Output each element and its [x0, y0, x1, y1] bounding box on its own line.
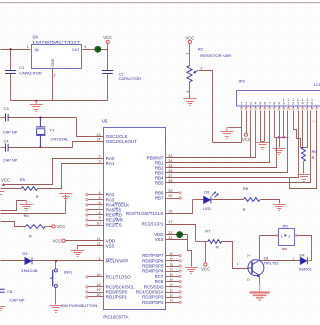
microcontroller U5 PIC16C877A [104, 128, 166, 310]
wire Q1 emitter down [259, 276, 261, 284]
svg-text:5: 5 [259, 101, 261, 105]
svg-text:1N4148: 1N4148 [21, 268, 38, 273]
diode D4 1N4001 [300, 258, 307, 265]
svg-text:2: 2 [54, 74, 56, 78]
JP3 pin 17 terminal [316, 106, 318, 108]
node VCC (green junction) [95, 46, 101, 52]
LED D2 [204, 192, 219, 204]
svg-text:1N4001: 1N4001 [298, 267, 312, 272]
wire RB4 pin 37 to JP3 pin 13 [166, 111, 299, 178]
wire R5 to RA1 pin 3 [38, 164, 104, 189]
wire to ground JP3 data pins [279, 138, 281, 148]
svg-text:1: 1 [287, 102, 289, 106]
wire JP3 pin 5 drop [260, 111, 262, 142]
junction C1 tap [10, 48, 12, 50]
power VCC terminal R6 [52, 225, 55, 228]
svg-text:VCC: VCC [103, 35, 112, 40]
wire JP3 pin 8 drop [274, 111, 276, 138]
VCC arrow terminal [2, 183, 5, 186]
no-connect terminals U5 left pins 16-20 [86, 276, 104, 298]
ground C5 (cut) [0, 307, 5, 313]
wire branch to JP3 pin 17 [290, 111, 317, 189]
svg-text:14: 14 [247, 254, 251, 258]
svg-text:R6: R6 [24, 213, 30, 218]
svg-text:0: 0 [283, 102, 285, 106]
ground JP3 pins 8-10 [273, 149, 286, 155]
wire RB1 pin 34 to JP3 pin 7 [166, 111, 270, 163]
svg-text:13: 13 [96, 133, 100, 137]
svg-text:IN: IN [35, 47, 39, 52]
no-connect terminals U5 left pins 4-10 [86, 194, 104, 227]
pot wiper arrow [194, 70, 199, 73]
wire to ground pins 31-32 [188, 235, 192, 267]
wire R6 to VCC terminal [46, 226, 52, 228]
svg-text:3: 3 [297, 102, 299, 106]
svg-text:VCC: VCC [56, 224, 65, 229]
svg-text:40: 40 [168, 194, 172, 198]
junction ground rail [35, 100, 37, 102]
wire VCC stub mid [205, 242, 207, 263]
wire to C1 top [10, 50, 12, 71]
svg-text:24: 24 [169, 284, 173, 288]
wire JP3 pin 3 drop [250, 111, 252, 158]
wire RB5 pin 38 to JP3 pin 16 [166, 111, 311, 183]
wire JP3 pin 6 drop [264, 111, 266, 142]
svg-text:U5: U5 [102, 119, 108, 124]
svg-text:Y1: Y1 [50, 128, 55, 133]
wire input to U4 IN [1, 49, 31, 51]
wire R8 to ground [261, 200, 280, 204]
wire VDD pin 32 [166, 234, 188, 236]
svg-text:R7: R7 [205, 228, 210, 233]
wire ground net drop [65, 195, 67, 214]
svg-text:CRYSTAL: CRYSTAL [51, 137, 70, 142]
power VCC terminal mid [204, 263, 207, 266]
svg-text:8: 8 [273, 101, 275, 105]
capacitor C3 [6, 114, 9, 122]
wire pot to JP3 pin 1 [213, 142, 242, 144]
svg-text:3: 3 [84, 45, 86, 49]
svg-text:JP2: JP2 [282, 225, 288, 229]
svg-text:LCD: LCD [314, 82, 320, 87]
svg-text:17: 17 [168, 220, 172, 224]
wire left to D3 anode [1, 260, 25, 262]
resistor R5 [21, 187, 37, 191]
crystal Y1 [36, 117, 45, 147]
ground SW1 [49, 306, 62, 313]
svg-text:RE2/CS: RE2/CS [106, 223, 122, 228]
wire into C4 [1, 147, 6, 149]
wire JP3 pins 8-11 join [275, 137, 289, 139]
svg-text:4: 4 [255, 101, 257, 105]
svg-text:D3: D3 [22, 251, 28, 256]
svg-text:CAPACITOR: CAPACITOR [19, 70, 42, 75]
wire into C3 [1, 117, 6, 119]
wire VSS pin 12 to ground [78, 246, 104, 250]
wire JP3 pin 15 drop [307, 111, 309, 148]
svg-text:R2: R2 [198, 47, 204, 52]
svg-text:CAPACITOR: CAPACITOR [119, 76, 142, 81]
wire to SW1 top [55, 261, 57, 269]
transistor Q1 TIPL751 [248, 260, 264, 278]
wire ground rail [11, 100, 108, 102]
svg-text:D4: D4 [300, 252, 306, 257]
U5 right pin name and number labels [126, 154, 173, 305]
svg-text:CAP NP: CAP NP [10, 298, 25, 303]
wire JP3 pin 2 to VCC [246, 111, 248, 134]
svg-text:2: 2 [245, 101, 247, 105]
potentiometer R2 RESISTOR VAR [187, 66, 192, 82]
svg-text:1: 1 [281, 234, 283, 238]
power VCC terminal [106, 40, 109, 43]
svg-text:RB5: RB5 [155, 181, 164, 186]
capacitor C5 [0, 289, 5, 292]
wire C4 to OSC2 net [9, 147, 73, 149]
power VCC terminal pot [188, 40, 191, 43]
top border frame line [0, 2, 320, 3]
svg-text:15: 15 [247, 278, 251, 282]
svg-text:VCC: VCC [1, 177, 10, 182]
wire VCC to VDD pin 11 [66, 240, 104, 242]
wire collector node to D4 anode [260, 260, 301, 262]
svg-text:RC2/CCP1: RC2/CCP1 [142, 222, 164, 227]
svg-text:SW1: SW1 [64, 270, 73, 275]
power VCC terminal JP3 [245, 133, 248, 136]
ground U5 right [185, 268, 198, 274]
svg-text:o+: o+ [312, 120, 316, 124]
wire JP3 pin 14 drop [302, 111, 304, 148]
wire D2 cathode to R8 [212, 199, 244, 201]
svg-text:GND: GND [51, 58, 55, 66]
wire C2 bottom to ground rail [107, 74, 109, 101]
voltage regulator U4 LM7805 [32, 35, 83, 69]
wire ground branch JP3 pin 1 [228, 127, 242, 129]
ground JP3 pins 5-6 [256, 143, 269, 150]
svg-text:1: 1 [27, 45, 29, 49]
svg-text:VSS: VSS [106, 243, 115, 248]
svg-text:5: 5 [306, 102, 308, 106]
wire left to R6 [1, 222, 26, 227]
wire JP3 pins 5-6 join [261, 141, 265, 143]
wire C1 bottom to ground rail [10, 74, 12, 101]
ground R2 [183, 99, 196, 106]
svg-text:VCC: VCC [185, 35, 194, 40]
wire Q1 collector up [259, 236, 261, 260]
wire U4 GND pin down [52, 69, 54, 101]
svg-text:R8: R8 [243, 186, 249, 191]
svg-text:R: R [216, 245, 219, 250]
svg-text:LM7805ACT/D2T: LM7805ACT/D2T [33, 40, 83, 44]
svg-text:1: 1 [240, 101, 242, 105]
svg-text:SW PUSHBUTTON: SW PUSHBUTTON [61, 303, 97, 308]
svg-text:RD1/PSP1: RD1/PSP1 [106, 295, 128, 300]
svg-text:19: 19 [96, 288, 100, 292]
svg-text:D2: D2 [204, 190, 209, 195]
svg-text:C3: C3 [4, 106, 10, 111]
resistor R6 [25, 225, 45, 229]
pushbutton SW1 [50, 269, 58, 288]
connector JP2 fan [276, 225, 297, 251]
svg-text:C4: C4 [4, 138, 10, 143]
svg-text:3: 3 [185, 91, 189, 93]
junction crystal bottom [40, 146, 42, 148]
power VCC terminal VDD [62, 239, 65, 242]
svg-text:U4: U4 [33, 35, 39, 40]
wire R2 bottom to ground [189, 82, 191, 99]
wire RB0 pin 33 to JP3 pin 4 [166, 111, 256, 158]
wire SW1 bottom to ground [55, 288, 57, 305]
resistor R7 [208, 240, 222, 244]
svg-text:RC6: RC6 [155, 279, 164, 284]
node VDD (green junction) [177, 232, 183, 238]
svg-text:C5: C5 [7, 289, 13, 294]
wire VCC to RA0 pin 2 [3, 159, 104, 185]
wire to D2 anode [193, 199, 204, 201]
diode D3 1N4148 [25, 258, 32, 265]
wire R9 to ground [303, 162, 305, 174]
wire RC0 pin 15 to LED [166, 200, 193, 214]
wire JP3 pin 10 drop [283, 111, 285, 138]
svg-text:2: 2 [292, 102, 294, 106]
svg-text:4: 4 [302, 102, 304, 106]
svg-text:7: 7 [269, 101, 271, 105]
ground VSS pin 12 [71, 251, 84, 257]
wire R2 wiper drop [199, 71, 213, 143]
svg-text:RC0/T1OSI/T1CLK: RC0/T1OSI/T1CLK [126, 211, 164, 216]
connector JP3 LCD [237, 91, 320, 107]
svg-text:VCC: VCC [201, 266, 210, 271]
wire C3 to OSC1 net [9, 117, 77, 119]
svg-text:JP3: JP3 [238, 79, 246, 84]
svg-text:CAP NP: CAP NP [3, 129, 18, 134]
ground left edge (cut) [0, 192, 4, 199]
svg-text:9: 9 [99, 216, 101, 220]
wire RB3 pin 36 to JP3 pin 11 [166, 111, 288, 173]
svg-text:10: 10 [96, 221, 100, 225]
svg-text:R: R [36, 194, 39, 199]
wire join R9 top [304, 147, 308, 149]
wire JP3 pin 12 staircase to R9 [294, 111, 304, 148]
svg-text:2: 2 [288, 234, 290, 238]
no-connect terminals U5 right pins [166, 192, 181, 304]
svg-text:VCC: VCC [53, 238, 62, 243]
svg-text:RC1/T1OSO: RC1/T1OSO [106, 274, 131, 279]
svg-text:C1: C1 [19, 65, 24, 70]
svg-text:LED: LED [203, 206, 211, 211]
capacitor C4 [6, 144, 9, 152]
wire D3 cathode to MCLR pin 1 [33, 260, 104, 262]
ground R9 [297, 175, 310, 182]
svg-text:CAP NP: CAP NP [3, 157, 18, 162]
wire left rail [1, 213, 66, 215]
ground JP3 pin 1 net [220, 128, 233, 139]
ground R8 [273, 205, 286, 211]
active-low overlines [106, 203, 125, 259]
svg-text:OSC2/CLKOUT: OSC2/CLKOUT [106, 139, 137, 144]
wire OSC1 route to pin 13 [77, 118, 104, 137]
svg-text:2: 2 [99, 155, 101, 159]
wire RB2 pin 35 up [166, 138, 277, 168]
wire R7 to Q1 base [222, 242, 248, 269]
ground Q1 emitter [250, 283, 270, 300]
svg-text:TIPL751: TIPL751 [264, 260, 279, 265]
resistor R9 [302, 147, 306, 161]
capacitor C1 [5, 71, 16, 74]
svg-text:R: R [29, 234, 32, 239]
svg-text:14: 14 [96, 138, 100, 142]
svg-text:VCC: VCC [242, 137, 251, 142]
svg-text:3: 3 [99, 160, 101, 164]
svg-text:6: 6 [311, 102, 313, 106]
wire D4 to JP2 pin 2 net [309, 260, 312, 262]
svg-text:6: 6 [264, 101, 266, 105]
wire to R7 [196, 241, 208, 243]
svg-text:R9: R9 [312, 149, 317, 154]
ground left net [20, 201, 33, 211]
wire RC2 pin 17 drop [166, 225, 196, 242]
svg-text:RESISTOR VAR: RESISTOR VAR [200, 53, 231, 58]
wire JP3 pin 1 drop [241, 111, 243, 143]
svg-text:fan: fan [282, 247, 287, 251]
capacitor C2 [102, 71, 113, 74]
svg-text:PIC16C877A: PIC16C877A [103, 315, 128, 320]
wire VCC terminal stub [107, 44, 109, 50]
svg-text:RD2/PSP2: RD2/PSP2 [142, 300, 164, 305]
svg-text:R: R [312, 155, 315, 160]
resistor R8 [244, 198, 261, 202]
junction JP3 pin 10 [283, 136, 285, 138]
JP3 pin stubs, terminals and pin numbers [240, 98, 313, 109]
svg-text:R: R [243, 207, 246, 212]
wire JP2 pin 2 to D4 cathode [297, 236, 312, 261]
svg-text:9: 9 [278, 101, 280, 105]
junction crystal top [40, 117, 42, 119]
wire VSS pin 31 [166, 239, 188, 241]
U5 left pin name and number labels [96, 133, 137, 300]
svg-text:RA1: RA1 [106, 161, 115, 166]
wire VCC node down to C2 [107, 50, 109, 71]
wire VCC to R2 top [189, 44, 191, 66]
wire collector to JP2 pin 1 [260, 235, 277, 237]
wire left edge to R5 [1, 188, 22, 190]
svg-text:29: 29 [169, 258, 173, 262]
svg-text:RB7: RB7 [155, 196, 164, 201]
svg-text:R5: R5 [20, 177, 26, 182]
svg-text:1: 1 [185, 53, 189, 55]
junction SW1 tap [55, 260, 57, 262]
wire OSC2 route to pin 14 [73, 142, 104, 148]
wire U4 OUT to VCC node [83, 49, 108, 51]
wire JP3 pin 9 drop [279, 111, 281, 138]
ground mid-left net [59, 194, 72, 201]
ground power rail [30, 101, 43, 112]
svg-text:OUT: OUT [72, 48, 80, 52]
wire left to ground stub [1, 201, 27, 211]
svg-text:VSS: VSS [155, 237, 164, 242]
junction JP3 pin 9 [278, 136, 280, 138]
svg-text:3: 3 [250, 101, 252, 105]
